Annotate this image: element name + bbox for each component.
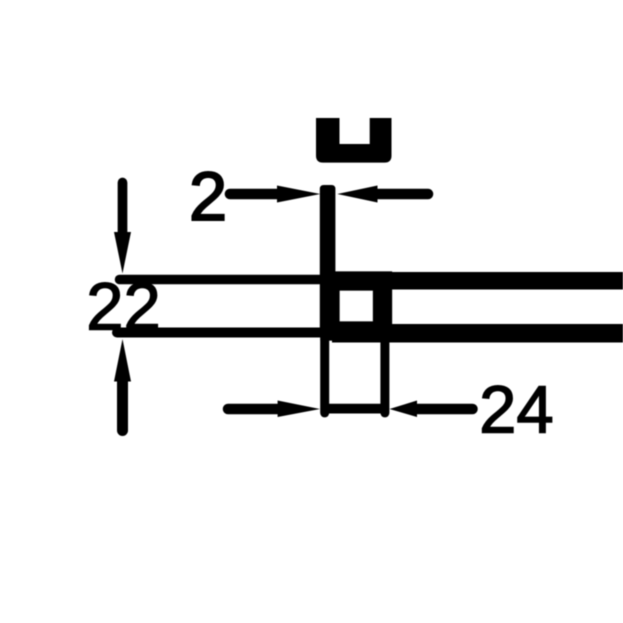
svg-text:2: 2: [189, 158, 227, 235]
svg-text:22: 22: [86, 270, 161, 345]
svg-text:24: 24: [479, 373, 554, 448]
